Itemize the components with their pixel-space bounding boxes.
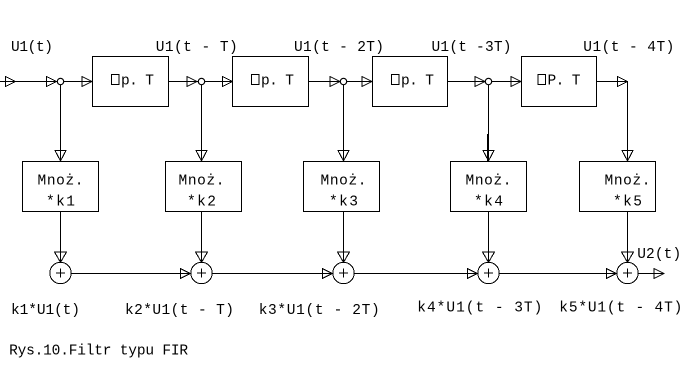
svg-text:Mnoż.: Mnoż. (179, 174, 225, 190)
wire U2 out to U3 in (309, 81, 373, 83)
arrowhead into Mnoz k5 (622, 151, 633, 162)
multiplier block Mnoz k1 (23, 162, 99, 212)
wire adder S2 to S3 (212, 273, 333, 275)
wire input to delay block U1 (0, 81, 92, 83)
wire Mnoz k5 down to adder S5 (627, 212, 629, 263)
arrowhead into Mnoz k1 (55, 151, 66, 162)
delay block U3 (Op. T) (373, 57, 448, 107)
wire Mnoz k3 down to adder S3 (343, 212, 345, 263)
svg-text:U1(t -3T): U1(t -3T) (432, 40, 512, 56)
arrowhead into U2 (223, 77, 233, 87)
multiplier block Mnoz k5 (580, 162, 656, 212)
arrowhead into adder S5 (606, 269, 616, 279)
wire adder S5 output (638, 273, 664, 275)
multiplier block Mnoz k2 (166, 162, 242, 212)
adder S2 (summing junction) (191, 262, 212, 283)
svg-text:k1*U1(t): k1*U1(t) (11, 303, 80, 319)
svg-text:*k2: *k2 (187, 195, 216, 211)
arrowhead into adder S4 (467, 269, 477, 279)
node B (198, 78, 204, 84)
wire corner down to Mnoz k5 (627, 82, 629, 162)
arrowhead into adder S4 (483, 252, 495, 262)
svg-text:k2*U1(t - T): k2*U1(t - T) (125, 303, 234, 319)
arrowhead before node A (47, 77, 57, 87)
arrowhead into adder S3 (322, 269, 332, 279)
arrowhead before node C (330, 77, 340, 87)
svg-text:*k3: *k3 (329, 195, 358, 211)
adder S3 (summing junction) (333, 262, 354, 283)
svg-text:k3*U1(t - 2T): k3*U1(t - 2T) (259, 303, 380, 319)
delay block U2 (Op. T) (233, 57, 309, 107)
wire node A down to Mnoz k1 (60, 82, 62, 162)
svg-text:p. T: p. T (401, 74, 434, 90)
delay block U1 (Op. T) (93, 57, 169, 107)
arrowhead into U1 (82, 77, 92, 87)
multiplier block Mnoz k4 (451, 162, 527, 212)
arrowhead at corner (618, 77, 628, 87)
arrowhead output U2(t) (654, 269, 664, 279)
arrowhead into adder S3 (338, 252, 350, 262)
wire U4 out to corner (597, 81, 628, 83)
wire node C down to Mnoz k3 (343, 82, 345, 162)
arrowhead into adder S2 (180, 269, 190, 279)
arrowhead into adder S1 (55, 252, 67, 262)
delay block U4 (Op. T) (522, 57, 597, 107)
svg-text:Rys.10.Filtr typu FIR: Rys.10.Filtr typu FIR (9, 344, 188, 360)
arrowhead before node D (475, 77, 485, 87)
svg-text:U1(t - 4T): U1(t - 4T) (583, 40, 674, 56)
node A (57, 78, 63, 84)
multiplier block Mnoz k3 (304, 162, 380, 212)
adder S5 (summing junction) (617, 262, 638, 283)
svg-text:Mnoż.: Mnoż. (605, 174, 651, 190)
svg-text:*k1: *k1 (46, 195, 75, 211)
arrowhead into Mnoz k3 (338, 151, 349, 162)
svg-text:Mnoż.: Mnoż. (321, 174, 367, 190)
arrowhead into adder S2 (196, 252, 208, 262)
arrowhead input (6, 77, 16, 87)
wire U1 out to U2 in (169, 81, 233, 83)
adder S1 (summing junction) (50, 262, 71, 283)
svg-text:*k4: *k4 (474, 195, 503, 211)
svg-text:U1(t - T): U1(t - T) (156, 40, 238, 56)
arrowhead into U3 (362, 77, 372, 87)
label Op. T in U1 (112, 75, 120, 85)
svg-text:U1(t): U1(t) (11, 40, 53, 56)
svg-text:U1(t - 2T): U1(t - 2T) (294, 40, 384, 56)
wire node D down to Mnoz k4 (488, 82, 490, 162)
wire U3 out to U4 in (448, 81, 522, 83)
svg-text:Mnoż.: Mnoż. (466, 174, 512, 190)
svg-text:Mnoż.: Mnoż. (38, 174, 84, 190)
wire doubled segment above Mnoz k4 (487, 134, 489, 161)
label Op. T in U2 (252, 75, 260, 85)
wire adder S3 to S4 (354, 273, 478, 275)
adder S4 (summing junction) (478, 262, 499, 283)
wire Mnoz k2 down to adder S2 (201, 212, 203, 263)
wire adder S4 to S5 (499, 273, 617, 275)
wire Mnoz k4 down to adder S4 (488, 212, 490, 263)
wire node B down to Mnoz k2 (201, 82, 203, 162)
label Op. T in U4 (538, 75, 546, 85)
svg-text:p. T: p. T (121, 74, 154, 90)
arrowhead before node B (187, 77, 197, 87)
node C (340, 78, 346, 84)
arrowhead into adder S5 (622, 252, 634, 262)
node D (485, 78, 491, 84)
wire adder S1 to S2 (71, 273, 191, 275)
arrowhead into Mnoz k2 (196, 151, 207, 162)
arrowhead into U4 (511, 77, 521, 87)
wire Mnoz k1 down to adder S1 (60, 212, 62, 263)
svg-text:*k5: *k5 (613, 195, 642, 211)
svg-text:p. T: p. T (261, 74, 294, 90)
svg-text:P. T: P. T (548, 74, 581, 90)
svg-text:k5*U1(t - 4T): k5*U1(t - 4T) (559, 301, 682, 317)
arrowhead into Mnoz k4 (483, 151, 494, 162)
label Op. T in U3 (392, 75, 400, 85)
svg-text:U2(t): U2(t) (637, 247, 681, 263)
svg-text:k4*U1(t - 3T): k4*U1(t - 3T) (417, 301, 542, 317)
